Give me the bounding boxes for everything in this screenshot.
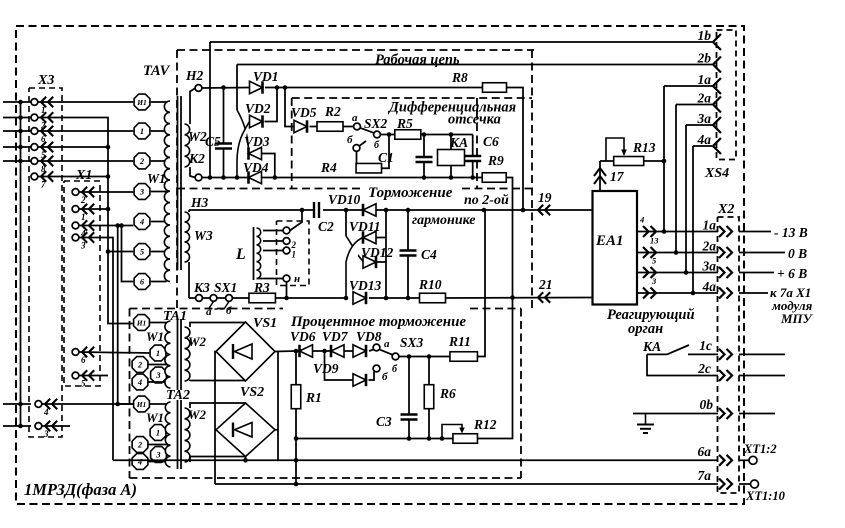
wire H2 rail left bbox=[202, 87, 250, 90]
wire L top tap to 19 rail bbox=[290, 210, 302, 231]
wire far-left stub f bbox=[3, 403, 31, 405]
junction L tap n bbox=[284, 296, 289, 301]
svg-text:VD10: VD10 bbox=[328, 192, 361, 207]
svg-text:1: 1 bbox=[292, 250, 297, 260]
svg-text:1: 1 bbox=[81, 212, 86, 222]
junction R11 riser bbox=[482, 208, 487, 213]
svg-text:L: L bbox=[235, 246, 246, 263]
svg-text:R10: R10 bbox=[418, 277, 442, 292]
wire TA1 W2 bottom to VS1 bbox=[190, 380, 246, 383]
svg-text:2: 2 bbox=[80, 195, 86, 205]
svg-text:0 В: 0 В bbox=[788, 246, 807, 261]
terminal XT1:2 circle bbox=[749, 456, 757, 464]
wire crossing from VD11 bbox=[346, 238, 363, 299]
junction VD10 left bbox=[344, 208, 349, 213]
wire X3:5 to bus V1 bbox=[38, 146, 108, 148]
wire TA1 tap2 bbox=[149, 364, 170, 366]
diode VD5 bbox=[294, 120, 307, 132]
transformer TA2 secondary winding W2 bbox=[185, 408, 190, 462]
node I1 of TA1 bbox=[134, 315, 150, 331]
wire 4a row bbox=[693, 145, 712, 147]
capacitor C5 bbox=[223, 88, 225, 144]
junction V1 node5 bbox=[106, 249, 111, 254]
wire TA1 I1 tap bbox=[150, 322, 166, 324]
junction VD13 left bbox=[344, 296, 349, 301]
wire VS1 right corner to rail bbox=[275, 350, 296, 353]
node 3 of TA2 bbox=[151, 447, 167, 463]
pin X3:5 arrows bbox=[41, 142, 53, 152]
arrow pair EA1 output 13 bbox=[643, 247, 656, 258]
diode VD10 bbox=[363, 204, 376, 216]
svg-text:+ 6 В: + 6 В bbox=[777, 266, 807, 281]
wire K2 rail left bbox=[202, 177, 249, 179]
inductor L winding bbox=[257, 228, 261, 279]
wire node 6 tap to winding bbox=[151, 281, 167, 283]
diode VD4 bbox=[249, 171, 262, 183]
svg-text:0b: 0b bbox=[700, 397, 714, 412]
svg-text:4: 4 bbox=[139, 217, 144, 227]
wire node 5 to bus V1 bbox=[108, 251, 133, 253]
transformer TAV core line 2 bbox=[180, 96, 182, 270]
wire -13V out bbox=[739, 231, 771, 233]
svg-text:К3: К3 bbox=[193, 280, 210, 295]
pin X3:1 circle bbox=[31, 99, 38, 106]
wire KA bottom bbox=[450, 166, 452, 178]
pin X3:4 arrows bbox=[45, 399, 57, 409]
terminal L tap n circle bbox=[283, 275, 290, 282]
capacitor C6 bbox=[472, 135, 474, 157]
svg-text:W1: W1 bbox=[146, 329, 164, 344]
wire EA1 output 5 bbox=[637, 272, 718, 274]
pin X3:7 arrows bbox=[41, 171, 53, 181]
junction KA bottom bbox=[449, 175, 454, 180]
rectifier bridge VS1 bbox=[216, 322, 275, 381]
svg-text:3: 3 bbox=[43, 429, 49, 439]
pin X3:2 arrows bbox=[41, 112, 53, 122]
wire X1:2 to node 3 bbox=[79, 191, 133, 193]
junction 1b drop on K2 rail bbox=[208, 175, 213, 180]
svg-text:1c: 1c bbox=[699, 338, 712, 353]
wire 1a drop bbox=[663, 86, 665, 232]
junction VD2 cathode bbox=[275, 85, 280, 90]
svg-text:H2: H2 bbox=[185, 68, 204, 83]
svg-text:XT1:10: XT1:10 bbox=[745, 489, 786, 503]
wire VD12 to right branch bbox=[376, 261, 386, 263]
svg-text:W2: W2 bbox=[188, 407, 207, 422]
svg-text:R1: R1 bbox=[305, 390, 322, 405]
node 3 of TA1 bbox=[151, 367, 167, 383]
svg-text:R13: R13 bbox=[632, 140, 656, 155]
svg-text:VD7: VD7 bbox=[322, 329, 349, 344]
pin X1:6 arrows bbox=[82, 347, 94, 357]
transformer TA1 secondary winding W2 bbox=[185, 327, 190, 381]
pin X2:2c arrows bbox=[719, 370, 732, 381]
dashed right edge protsentnoye box bbox=[520, 309, 522, 479]
wire VD13 to R10 bbox=[369, 297, 420, 299]
wire 6a line bbox=[113, 459, 718, 461]
wire R12 rail bbox=[296, 438, 453, 440]
arrow pair EA1 output 4 bbox=[643, 226, 656, 237]
junction far-left bbox=[18, 129, 23, 134]
wire R9 to 21 rail bbox=[506, 178, 512, 298]
svg-text:3: 3 bbox=[80, 241, 86, 251]
wire 7a to XT1:10 bbox=[739, 483, 750, 485]
node 5 of TAV primary bbox=[134, 244, 150, 260]
junction VD13 right bbox=[384, 296, 389, 301]
terminal K3 circle bbox=[196, 295, 203, 302]
wire 2a drop bbox=[675, 105, 677, 253]
wire to MPU out bbox=[739, 292, 768, 294]
svg-text:VD3: VD3 bbox=[244, 134, 270, 149]
wire far-left stub c bbox=[3, 130, 31, 132]
diode VD12 bbox=[363, 256, 376, 268]
wire X1:5 stub bbox=[79, 375, 108, 377]
svg-text:3: 3 bbox=[155, 450, 161, 460]
wire 1b drop at x210 bbox=[209, 42, 211, 178]
svg-text:H3: H3 bbox=[190, 195, 209, 210]
wire 3a row bbox=[686, 124, 712, 126]
pin X1:1 arrows bbox=[82, 204, 94, 214]
svg-text:R12: R12 bbox=[473, 417, 497, 432]
transformer TAV secondary winding W2 bbox=[185, 124, 190, 167]
svg-text:19: 19 bbox=[538, 190, 552, 205]
wire 2c out bbox=[739, 375, 785, 377]
dashed top edge protsentnoye box right part bbox=[470, 308, 521, 310]
wire 6a to XT1:2 bbox=[739, 459, 749, 461]
svg-text:VD8: VD8 bbox=[356, 329, 382, 344]
svg-text:7а: 7а bbox=[698, 468, 712, 483]
junction 4a on EA1 out bbox=[691, 291, 696, 296]
junction VD5 branch bbox=[283, 85, 288, 90]
rectifier bridge VS2 bbox=[216, 403, 275, 457]
resistor R12 bbox=[453, 434, 478, 444]
svg-text:б: б bbox=[382, 371, 388, 383]
wire K3 to SX1 bbox=[202, 297, 210, 299]
svg-text:3: 3 bbox=[139, 187, 145, 197]
wire X3:7 to bus V1 bbox=[38, 176, 108, 178]
wire W3 bottom to rail bbox=[188, 262, 190, 298]
wire SX2 common to R5 bbox=[380, 134, 394, 136]
switch SX3 contact b bbox=[373, 365, 380, 372]
svg-text:VS1: VS1 bbox=[253, 316, 277, 331]
pin X2:0b arrows bbox=[719, 408, 732, 419]
dashed mid edge right part bbox=[462, 188, 534, 190]
svg-text:R5: R5 bbox=[396, 116, 413, 131]
terminal L tap 3 circle bbox=[283, 247, 290, 254]
wire R11 riser to 19 rail bbox=[478, 210, 486, 357]
svg-text:Торможение: Торможение bbox=[368, 185, 453, 201]
junction C1 bottom bbox=[422, 175, 427, 180]
dashed right edge otsechka box bbox=[476, 98, 478, 189]
transformer TA2 primary winding bbox=[165, 402, 170, 467]
arrow pair 21 bbox=[538, 292, 550, 302]
capacitor C1 bbox=[423, 135, 425, 158]
resistor R4 bbox=[356, 163, 382, 173]
svg-text:VD13: VD13 bbox=[349, 278, 382, 293]
wire KA contact stub bbox=[647, 353, 667, 355]
junction VS2 bottom on 6a line bbox=[243, 458, 248, 463]
svg-text:МПУ: МПУ bbox=[780, 311, 814, 326]
svg-text:4: 4 bbox=[43, 407, 49, 417]
junction R6 bottom bbox=[427, 436, 432, 441]
svg-text:SX1: SX1 bbox=[214, 280, 237, 295]
junction 2a on EA1 out bbox=[674, 250, 679, 255]
wire far-left stub e bbox=[3, 160, 31, 162]
svg-text:X2: X2 bbox=[717, 202, 734, 217]
junction R1 on 7a line bbox=[294, 482, 299, 487]
diode VD1 bbox=[250, 81, 263, 93]
wire 0b row bbox=[633, 413, 718, 415]
svg-text:н: н bbox=[294, 273, 300, 285]
svg-text:21: 21 bbox=[538, 277, 553, 292]
wire VD9 to SX3 b bbox=[369, 372, 375, 381]
svg-text:VD2: VD2 bbox=[245, 101, 271, 116]
wire W2 top to H2 bbox=[190, 88, 195, 124]
resistor R8 bbox=[483, 83, 507, 93]
svg-text:3: 3 bbox=[155, 370, 161, 380]
junction C5 top bbox=[221, 85, 226, 90]
svg-text:С5: С5 bbox=[205, 134, 221, 149]
pin X1:3 arrows bbox=[82, 232, 94, 242]
capacitor C2 bbox=[314, 203, 323, 217]
junction VD10 right bbox=[384, 208, 389, 213]
wire TA2 I1 tap bbox=[150, 403, 166, 405]
pin X2:1а arrows bbox=[719, 226, 732, 237]
wire VS right corners drop bbox=[277, 352, 279, 461]
svg-text:VD4: VD4 bbox=[243, 160, 269, 175]
svg-text:W1: W1 bbox=[146, 410, 164, 425]
junction far-left bbox=[18, 115, 23, 120]
rectifier bridge VS1 diode symbol bbox=[233, 344, 252, 359]
wire 7a line bbox=[215, 483, 718, 485]
wire R3 to VD13 bbox=[276, 297, 347, 299]
junction R1 on 6a line bbox=[294, 458, 299, 463]
node 1 of TAV primary bbox=[134, 123, 150, 139]
svg-text:ЕА1: ЕА1 bbox=[595, 233, 624, 249]
wire W3 top stub bbox=[188, 210, 190, 212]
node 4 of TA1 bbox=[132, 374, 148, 390]
pin X3:8 arrows bbox=[41, 156, 53, 166]
svg-text:VD12: VD12 bbox=[361, 245, 394, 260]
wire node 1 tap to winding bbox=[151, 130, 167, 132]
svg-text:б: б bbox=[226, 305, 232, 317]
wire R13 left bbox=[600, 160, 614, 162]
junction C4 bottom bbox=[406, 296, 411, 301]
resistor R10 bbox=[420, 293, 446, 303]
resistor R2 bbox=[317, 122, 343, 132]
switch SX1 contact 1 bbox=[210, 295, 217, 302]
node 4 of TAV primary bbox=[134, 214, 150, 230]
wire R8 to 19 rail bbox=[507, 88, 524, 211]
wire L tap 1 bbox=[263, 230, 283, 232]
pin X1:4 arrows bbox=[82, 220, 94, 230]
wire far-left stub d bbox=[3, 146, 31, 148]
junction L top tap bbox=[300, 208, 305, 213]
svg-text:R3: R3 bbox=[253, 280, 270, 295]
svg-text:КА: КА bbox=[642, 339, 661, 354]
junction C4 top bbox=[406, 208, 411, 213]
junction V4 bottom on X3:4 row bbox=[115, 402, 120, 407]
svg-text:R4: R4 bbox=[320, 160, 337, 175]
svg-text:W1: W1 bbox=[147, 171, 166, 186]
terminal L tap 1 circle bbox=[283, 227, 290, 234]
svg-text:4a: 4a bbox=[697, 132, 712, 147]
junction R1 top bbox=[294, 349, 299, 354]
wire right branch bbox=[385, 210, 387, 298]
pin X3:3 arrows bbox=[45, 421, 57, 431]
terminal L tap 2 circle bbox=[283, 238, 290, 245]
junction V1 pin7 bbox=[106, 174, 111, 179]
pin X2:6a arrows bbox=[719, 455, 732, 466]
svg-text:4а: 4а bbox=[702, 279, 717, 294]
wire X3:4 row to TA2 I1 bbox=[42, 403, 133, 405]
dashed left edge TAV column bbox=[176, 50, 178, 309]
wire EA1 output 3 bbox=[637, 292, 718, 294]
pin XS4:2b socket bbox=[713, 57, 721, 73]
svg-text:6: 6 bbox=[81, 355, 86, 365]
svg-text:7: 7 bbox=[41, 180, 46, 190]
wire K2 bottom rail to R9 bbox=[262, 177, 483, 179]
resistor R3 bbox=[249, 293, 276, 303]
svg-text:VD1: VD1 bbox=[253, 69, 279, 84]
pin X1:1 circle bbox=[72, 206, 79, 213]
pin X3:3 circle bbox=[35, 423, 42, 430]
switch SX1 contact 2 bbox=[226, 295, 233, 302]
junction R9/R12 riser on 21 rail bbox=[510, 295, 515, 300]
dashed top edge rabochaya tsep / TAV box bbox=[177, 49, 534, 51]
svg-text:2c: 2c bbox=[697, 361, 711, 376]
pin X3:4 circle bbox=[35, 401, 42, 408]
svg-text:SX3: SX3 bbox=[400, 335, 424, 350]
svg-text:Процентное торможение: Процентное торможение bbox=[290, 314, 466, 330]
pin X2:4а arrows bbox=[719, 288, 732, 299]
wire X1:4 to node 4 bbox=[79, 225, 133, 227]
svg-text:W2: W2 bbox=[188, 334, 207, 349]
svg-text:2: 2 bbox=[137, 360, 143, 370]
wire left branch upper bbox=[345, 210, 347, 236]
wire crossing curve to VD3 bbox=[237, 110, 249, 153]
node 2 of TA1 bbox=[132, 357, 148, 373]
inductor L dashed box bbox=[277, 221, 310, 286]
wire node 3 tap to winding bbox=[151, 191, 167, 193]
capacitor C4 bbox=[407, 210, 409, 251]
wire EA1 output 13 bbox=[637, 252, 718, 254]
arrow pair EA1 output 5 bbox=[643, 267, 656, 278]
junction R13 on 1a drop bbox=[662, 159, 667, 164]
diode VD8 bbox=[353, 345, 366, 357]
pin X3:6 circle bbox=[31, 128, 38, 135]
svg-text:С2: С2 bbox=[318, 219, 334, 234]
terminal K2 circle bbox=[195, 174, 202, 181]
pin XS4:4a socket bbox=[713, 138, 721, 154]
junction far-left bbox=[18, 145, 23, 150]
ground symbol bbox=[637, 414, 654, 434]
wire 19 rail bbox=[189, 209, 593, 211]
svg-text:2: 2 bbox=[291, 240, 297, 250]
switch SX1 tick a bbox=[209, 302, 214, 310]
junction far-left bbox=[18, 100, 23, 105]
wire R2 to SX2 bbox=[343, 126, 354, 128]
wire 2a row bbox=[676, 104, 712, 106]
wire TA2 W2 bottom to VS2 bbox=[190, 457, 246, 463]
arrow pair EA1 output 3 bbox=[643, 288, 656, 299]
wire 4a drop bbox=[692, 146, 694, 293]
switch SX1 link dashes bbox=[209, 308, 233, 310]
diode VD13 bbox=[353, 292, 366, 304]
svg-text:R11: R11 bbox=[448, 334, 471, 349]
junction VD3 on K2 rail bbox=[273, 175, 278, 180]
terminal XT1:10 circle bbox=[751, 480, 759, 488]
wire L bottom to tap n bbox=[257, 278, 284, 280]
wire 2b line bbox=[237, 64, 712, 66]
wire 1a row bbox=[664, 85, 712, 87]
wire TA2 tap1 bbox=[167, 432, 170, 434]
wire TA2 tap2 bbox=[149, 444, 170, 446]
pin X3:1 arrows bbox=[41, 97, 53, 107]
svg-text:VS2: VS2 bbox=[240, 385, 264, 400]
svg-text:2: 2 bbox=[137, 440, 143, 450]
connector X2 dashed box bbox=[718, 217, 740, 493]
wire TA1 W2 top to VS1 bbox=[190, 322, 246, 327]
terminal H2 circle bbox=[195, 85, 202, 92]
pin XS4:2a socket bbox=[713, 97, 721, 113]
outer module border 1MRZD bbox=[16, 26, 744, 504]
wire R12 riser to 21 rail bbox=[478, 298, 513, 439]
wire L tap 2 bbox=[263, 240, 283, 242]
svg-text:13: 13 bbox=[650, 236, 659, 246]
wire +6V out bbox=[739, 272, 774, 274]
wire SX1 middle bbox=[217, 297, 226, 299]
diode VD2 bbox=[250, 115, 263, 127]
svg-text:1МРЗД(фаза А): 1МРЗД(фаза А) bbox=[24, 480, 137, 499]
node 3 of TAV primary bbox=[134, 184, 150, 200]
svg-text:орган: орган bbox=[628, 321, 663, 337]
svg-text:VD5: VD5 bbox=[291, 105, 317, 120]
svg-text:КА: КА bbox=[449, 135, 468, 150]
wire bus V4 to TA2 I1 bbox=[118, 226, 133, 405]
wire VD5 to R2 bbox=[310, 126, 318, 128]
diode VD6 bbox=[300, 345, 313, 357]
svg-text:VD6: VD6 bbox=[290, 329, 316, 344]
svg-text:- 13 В: - 13 В bbox=[774, 225, 808, 240]
wire X3:1 to node I1 bbox=[38, 101, 133, 103]
switch SX2 common contact bbox=[374, 131, 381, 138]
pin X1:4 circle bbox=[72, 222, 79, 229]
wire W2 bottom to K2 bbox=[190, 167, 195, 178]
wire input 17 to EA1 bbox=[599, 161, 601, 191]
svg-text:XS4: XS4 bbox=[704, 166, 729, 181]
svg-text:С1: С1 bbox=[378, 150, 394, 165]
diode VD9 bbox=[353, 374, 366, 386]
resistor R11 bbox=[450, 352, 478, 362]
wire L tap n down to rail bbox=[286, 282, 288, 298]
pin X3:6 arrows bbox=[41, 126, 53, 136]
svg-text:3а: 3а bbox=[702, 259, 717, 274]
node 1 of TA2 bbox=[150, 425, 166, 441]
transformer TAV core line 1 bbox=[177, 96, 179, 270]
wire TA1 tap1 bbox=[167, 352, 170, 354]
wire far-left stub g bbox=[3, 425, 31, 427]
pin X1:3 circle bbox=[72, 234, 79, 241]
wire node И1 tap to winding bbox=[151, 101, 167, 103]
wire R4 to junction bbox=[382, 135, 390, 169]
dashed right edge rabochaya/tormozhenie bbox=[531, 50, 533, 309]
svg-text:R8: R8 bbox=[451, 70, 468, 85]
junction C3 top bbox=[407, 354, 412, 359]
wire X1:1 to bus V1 bbox=[79, 208, 108, 210]
wire far-left vertical bus bbox=[20, 102, 22, 426]
junction R8 riser bbox=[521, 208, 526, 213]
